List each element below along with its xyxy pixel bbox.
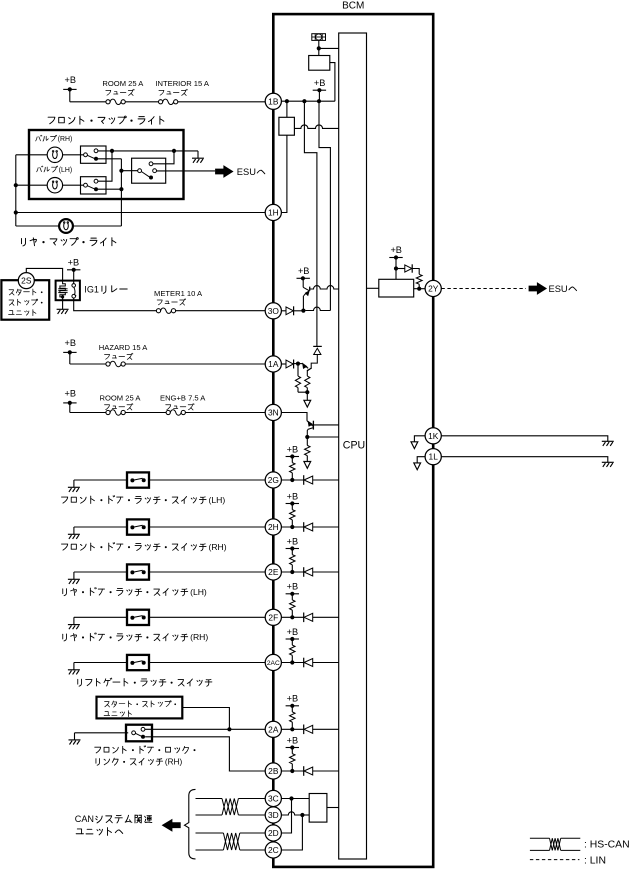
resistor (1A left) xyxy=(295,364,300,393)
label switch row xyxy=(78,679,82,686)
wire ground to switch xyxy=(74,571,127,573)
pull-up resistor xyxy=(290,504,295,528)
latch switch contacts xyxy=(130,616,145,620)
wire diode to CPU xyxy=(313,770,339,772)
node left bus / bulb LH xyxy=(14,183,18,187)
front map light box xyxy=(29,130,184,199)
svg-text:(RH): (RH) xyxy=(190,632,208,642)
ground (switch row) xyxy=(68,572,80,584)
wire fuse to 3O xyxy=(176,310,266,312)
node pull-up xyxy=(290,525,294,529)
wire left bus to bulb RH xyxy=(16,154,47,156)
diode (row, to CPU) xyxy=(304,725,313,735)
fuse HAZARD 15 A xyxy=(106,361,125,366)
wire 1K internal stub xyxy=(414,436,425,442)
svg-text:+B: +B xyxy=(65,75,77,85)
wire diode to resistor (2Y) xyxy=(412,269,419,275)
+B terminal (IG1) xyxy=(67,258,80,284)
wire left bus to bulb LH xyxy=(16,184,47,186)
svg-text:(LH): (LH) xyxy=(59,167,72,174)
diode (3O) xyxy=(286,306,294,315)
ground (IG1 coil) xyxy=(57,297,69,314)
wire branch to switch LH top contact xyxy=(98,151,112,181)
wire 3O to diode xyxy=(281,310,286,312)
label METER1 10 A fuse xyxy=(154,289,203,305)
twisted pair 2D/2C xyxy=(223,833,239,850)
wire main switch common left xyxy=(121,170,137,172)
ground (map light) xyxy=(192,151,204,163)
buzzer/sounder icon xyxy=(312,34,326,41)
svg-text:2Y: 2Y xyxy=(428,284,439,294)
main switch box xyxy=(132,158,166,183)
wire diode to CPU xyxy=(313,479,339,481)
svg-text:2B: 2B xyxy=(268,766,279,776)
ground (switch row) xyxy=(68,663,80,675)
wire IG1 contact to fuse METER1 xyxy=(74,298,157,311)
svg-text:+B: +B xyxy=(287,694,299,704)
svg-text:+B: +B xyxy=(287,444,299,454)
node unit / 2A wire xyxy=(227,727,231,731)
switch LH contacts xyxy=(84,179,98,191)
BCM outer box xyxy=(273,14,433,867)
node +B branch (2Y) xyxy=(394,266,398,270)
diode (row, to CPU) xyxy=(304,766,313,776)
svg-text:CPU: CPU xyxy=(343,440,365,452)
wire collector to CPU xyxy=(313,424,338,426)
wire 1L internal stub xyxy=(417,457,425,463)
connector 3N xyxy=(265,404,281,420)
connector 2E xyxy=(265,564,281,580)
wire switch to connector xyxy=(149,616,265,618)
switch LH box xyxy=(81,177,107,194)
node pull-up xyxy=(290,615,294,619)
IG1 relay contact xyxy=(72,284,76,298)
+B terminal (row) xyxy=(286,444,299,458)
svg-text:(LH): (LH) xyxy=(190,587,207,597)
svg-text:1B: 1B xyxy=(268,96,279,106)
wire 3D right xyxy=(238,814,265,816)
svg-text:HAZARD 15 A: HAZARD 15 A xyxy=(99,343,148,352)
wire 1B bus xyxy=(281,100,335,102)
svg-text:+B: +B xyxy=(390,245,402,255)
connector 2C xyxy=(265,842,281,858)
connector 2Y xyxy=(425,280,441,296)
wire connector to diode xyxy=(281,662,303,664)
pull-up resistor xyxy=(290,549,295,573)
wire 1A to diode xyxy=(281,363,286,365)
wire 2D right xyxy=(240,832,266,834)
wire fuse to 1A xyxy=(125,363,265,365)
svg-text:1L: 1L xyxy=(429,452,439,462)
+B terminal (1B feed) xyxy=(63,75,76,102)
node 3D/2C xyxy=(300,813,304,817)
wire 2C left xyxy=(196,849,224,851)
label lock link switch line2 xyxy=(96,759,100,766)
CAN transceiver box xyxy=(309,794,327,823)
latch switch box xyxy=(127,519,149,534)
+B terminal (3O transistor) xyxy=(297,266,310,281)
CPU box xyxy=(339,33,367,859)
node pull-up xyxy=(290,769,294,773)
label start stop unit (2A) xyxy=(104,701,176,717)
connector 3D xyxy=(265,807,281,823)
latch switch box xyxy=(127,564,149,579)
start stop unit box (left) xyxy=(1,280,49,320)
svg-text:IG1: IG1 xyxy=(84,285,99,295)
connector 3O xyxy=(265,303,281,319)
rear map light bulb xyxy=(59,219,73,233)
node common bus / switch LH xyxy=(119,187,123,191)
transistor (1A) xyxy=(298,355,317,377)
bulb LH xyxy=(47,178,62,193)
legend HS-CAN symbol xyxy=(530,838,580,850)
label bulb RH xyxy=(36,135,42,141)
label ROOM 25 A fuse xyxy=(102,79,144,95)
diode (row, to CPU) xyxy=(304,522,313,532)
svg-text:3O: 3O xyxy=(268,306,280,316)
lock link switch contacts xyxy=(132,727,145,738)
label switch row xyxy=(61,497,67,503)
svg-text:ROOM 25 A: ROOM 25 A xyxy=(100,393,142,402)
+B terminal (row) xyxy=(286,491,299,505)
ground (1L) xyxy=(602,462,614,467)
latch switch contacts xyxy=(130,478,145,482)
arrow to CAN units xyxy=(162,819,180,831)
wire 1K to ground xyxy=(441,436,608,442)
wire 3D left xyxy=(196,814,223,816)
latch switch contacts xyxy=(130,525,145,529)
arrow to ESU (map light) xyxy=(216,166,233,177)
ground (switch row) xyxy=(68,527,80,539)
svg-text:+B: +B xyxy=(298,266,310,276)
wire fuse to 3N xyxy=(185,412,265,414)
wire diode to node 1A xyxy=(294,363,298,365)
transistor (3O, PNP) xyxy=(303,278,310,296)
wire transistor to CPU (humps) xyxy=(310,286,339,289)
ground (lock switch) xyxy=(69,733,81,745)
diode (row, to CPU) xyxy=(304,658,313,668)
pull-up resistor xyxy=(290,594,295,618)
arrow to ESU (2Y) xyxy=(529,283,546,294)
switch RH contacts xyxy=(84,149,98,161)
latch switch contacts xyxy=(130,570,145,574)
svg-text:2S: 2S xyxy=(21,276,32,286)
+B terminal (2Y) xyxy=(389,245,402,279)
wire relay to 2Y xyxy=(414,288,426,290)
wire +B to fuse ROOM xyxy=(70,101,106,103)
label switch row xyxy=(61,544,67,550)
wire node up to transistor xyxy=(302,296,304,311)
connector 1H xyxy=(265,204,281,220)
IG1 relay box xyxy=(56,281,80,301)
main switch contacts xyxy=(138,162,157,180)
wire between fuses xyxy=(125,101,158,103)
wire left bus to rear bulb xyxy=(16,225,59,227)
svg-text:+B: +B xyxy=(65,389,77,399)
svg-text:(RH): (RH) xyxy=(58,136,73,143)
diode to bus A (1A) xyxy=(313,346,322,354)
svg-text:BCM: BCM xyxy=(342,1,364,12)
pull-up resistor xyxy=(290,748,295,772)
wire CPU to ESU relay xyxy=(367,287,379,289)
label bulb LH xyxy=(37,166,43,172)
wire 2D up to 3C node xyxy=(281,799,291,834)
fuse ROOM 25 A (3N) xyxy=(106,410,125,415)
svg-text:ESU: ESU xyxy=(549,284,568,294)
twisted pair 3C/3D xyxy=(222,799,238,816)
wire connector to diode xyxy=(281,616,303,618)
svg-text:+B: +B xyxy=(287,735,299,745)
svg-text:: HS-CAN: : HS-CAN xyxy=(584,839,630,850)
connector 2D xyxy=(265,825,281,841)
node pull-up xyxy=(290,570,294,574)
open arrow (1K internal) xyxy=(411,442,418,449)
ground (1K) xyxy=(602,441,614,446)
svg-text:2D: 2D xyxy=(268,828,279,838)
bus A: 1B to 1A diode xyxy=(304,101,317,346)
connector 1L xyxy=(425,449,441,465)
wire ground to switch xyxy=(74,479,127,481)
wire switch to connector xyxy=(149,662,265,664)
wire connector to diode xyxy=(281,526,303,528)
svg-text:3D: 3D xyxy=(268,810,279,820)
label switch row xyxy=(63,589,67,596)
+B terminal (row) xyxy=(286,627,299,641)
switch RH box xyxy=(81,146,107,163)
label rear map light xyxy=(22,238,26,246)
wire 1L to ground xyxy=(441,457,608,463)
svg-text:3N: 3N xyxy=(268,408,279,418)
wire 3C left xyxy=(196,798,223,800)
node common bus / main switch xyxy=(119,169,123,173)
svg-text:3C: 3C xyxy=(268,794,279,804)
wire resistor to node (2Y) xyxy=(418,284,420,289)
resistor (3N) xyxy=(305,437,310,462)
wire 1B bus up to relay coil xyxy=(330,63,335,102)
diode (2Y) xyxy=(405,264,412,272)
svg-text:ENG+B 7.5 A: ENG+B 7.5 A xyxy=(160,393,206,402)
connector 2A xyxy=(265,721,281,737)
+B terminal (BCM internal top) xyxy=(313,78,326,101)
wire switch RH top to ground net xyxy=(98,150,198,152)
connector 1A xyxy=(265,356,281,372)
wire ground to switch xyxy=(74,616,127,618)
diode (row, to CPU) xyxy=(304,567,313,577)
IG1 relay coil xyxy=(58,282,67,299)
lock link switch box xyxy=(126,725,152,742)
svg-text:+B: +B xyxy=(287,582,299,592)
wire ground to switch xyxy=(74,662,127,664)
open arrow (1L internal) xyxy=(414,463,421,470)
svg-text:2C: 2C xyxy=(268,845,279,855)
wire 1B node to relay contact xyxy=(286,101,288,117)
bulb RH xyxy=(47,147,62,162)
svg-text:1H: 1H xyxy=(268,208,279,218)
wire switch RH bottom to common bus xyxy=(96,158,121,160)
wire diode to CPU xyxy=(313,662,339,664)
wire switch LH bottom to common bus xyxy=(98,188,121,190)
wire connector to diode xyxy=(281,728,303,730)
+B terminal (row) xyxy=(286,694,299,708)
svg-text:(RH): (RH) xyxy=(208,542,226,552)
wire unit to 2A xyxy=(182,708,229,730)
svg-text:+B: +B xyxy=(287,536,299,546)
wire 2D left xyxy=(196,832,224,834)
label front map light xyxy=(48,117,55,124)
wire resistors join xyxy=(298,388,307,401)
ESU relay box xyxy=(379,279,414,297)
node pull-up xyxy=(290,727,294,731)
resistor (1A right) xyxy=(305,376,310,388)
wire +B to fuse ROOM (3N) xyxy=(70,412,106,414)
svg-text:: LIN: : LIN xyxy=(584,856,606,867)
connector 2G xyxy=(265,472,281,488)
wire node to diode (2Y) xyxy=(396,268,405,270)
wire buzzer to node xyxy=(318,40,320,55)
svg-text:ESU: ESU xyxy=(237,167,256,177)
latch switch box xyxy=(127,655,149,670)
wire between fuses (3N) xyxy=(125,412,166,414)
fuse METER1 10 A xyxy=(156,308,175,313)
wire 3C right xyxy=(238,798,265,800)
node on 1B bus (+B / bus B) xyxy=(317,99,321,103)
wire switch to connector xyxy=(149,526,265,528)
wire 3D into box xyxy=(302,814,309,816)
+B terminal (3N) xyxy=(63,389,76,413)
svg-text:2F: 2F xyxy=(268,612,278,622)
start stop unit box (2A) xyxy=(97,697,183,719)
node 3O xyxy=(301,309,305,313)
label ROOM 25 A fuse (3N) xyxy=(100,393,142,410)
wire relay contact to 1H xyxy=(281,135,287,212)
svg-text:CAN: CAN xyxy=(75,814,94,824)
wire switch to connector xyxy=(149,571,265,573)
connector 1K xyxy=(425,428,441,444)
wire +B to fuse HAZARD xyxy=(70,363,106,365)
node buzzer/coil/CPU xyxy=(317,46,321,50)
resistor (2Y) xyxy=(416,274,422,284)
label ENG+B 7.5 A fuse xyxy=(160,393,206,410)
wire connector to diode xyxy=(281,571,303,573)
fuse ROOM 25 A xyxy=(106,99,125,104)
connector 2S xyxy=(18,273,34,289)
label INTERIOR 15 A fuse xyxy=(155,79,210,95)
node ground net / main switch branch xyxy=(172,149,176,153)
svg-text:+B: +B xyxy=(287,627,299,637)
wire branch to main switch top contact xyxy=(153,151,174,164)
svg-text:2A: 2A xyxy=(268,724,279,734)
dashed LIN wire to ESU xyxy=(441,288,526,290)
diode (row, to CPU) xyxy=(304,613,313,623)
relay coil K1 xyxy=(309,56,330,71)
connector 2H xyxy=(265,519,281,535)
common bus vertical xyxy=(120,159,122,226)
wire main switch to ESU xyxy=(157,170,216,172)
wire relay contact to CPU (humps) xyxy=(294,125,338,128)
wire CAN box to CPU xyxy=(327,807,339,809)
svg-text:+B: +B xyxy=(68,258,80,268)
wire 3N to transistor xyxy=(281,413,307,421)
+B terminal (row) xyxy=(286,735,299,749)
wire diode to CPU xyxy=(313,571,339,573)
label CAN system line2 xyxy=(76,829,83,834)
wire bulb LH to switch LH xyxy=(63,184,84,186)
svg-text:2E: 2E xyxy=(268,567,279,577)
relay contact box K1 xyxy=(279,117,295,135)
svg-text:1A: 1A xyxy=(268,359,279,369)
wire bulb RH to switch RH xyxy=(63,154,84,156)
node emitter (3N) xyxy=(305,435,309,439)
latch switch contacts xyxy=(130,661,145,665)
wire diode to node xyxy=(294,310,304,312)
wire lock switch to 2A xyxy=(145,728,265,730)
svg-text:2G: 2G xyxy=(268,475,279,485)
node resistor / 2Y wire xyxy=(417,287,421,291)
node ground net / LH branch xyxy=(110,149,114,153)
wire diode to CPU xyxy=(313,526,339,528)
CAN brace xyxy=(185,789,196,859)
wire 3D to CAN box (hump) xyxy=(281,812,302,815)
svg-text:1K: 1K xyxy=(428,431,439,441)
svg-text:INTERIOR 15 A: INTERIOR 15 A xyxy=(155,79,210,88)
wire fuse to 1B xyxy=(178,101,265,103)
svg-text:2H: 2H xyxy=(268,522,279,532)
label switch row xyxy=(63,634,67,641)
wire rear bulb to common bus xyxy=(73,225,122,227)
pull-up resistor xyxy=(290,457,295,481)
node pull-up xyxy=(290,660,294,664)
svg-text:(LH): (LH) xyxy=(208,495,225,505)
wire 2C right xyxy=(240,849,266,851)
label lock link switch line1 xyxy=(95,747,101,753)
svg-text:+B: +B xyxy=(65,338,77,348)
connector 3C xyxy=(265,790,281,806)
pull-up resistor xyxy=(290,706,295,730)
output arrow (1A) xyxy=(304,400,311,407)
output arrow (3N) xyxy=(304,462,311,469)
node left bus / 1H wire xyxy=(14,210,18,214)
ground (switch row) xyxy=(68,617,80,629)
wire node to CPU xyxy=(319,47,339,49)
connector 2B xyxy=(265,763,281,779)
latch switch box xyxy=(127,610,149,625)
label HAZARD 15 A fuse xyxy=(99,343,148,360)
node 1A xyxy=(296,362,300,366)
+B terminal (row) xyxy=(286,582,299,596)
legend LIN symbol xyxy=(530,859,580,861)
pull-up resistor xyxy=(290,639,295,663)
wire emitter to CPU xyxy=(307,436,338,438)
fuse INTERIOR 15 A xyxy=(159,99,178,104)
latch switch box xyxy=(127,472,149,487)
transistor (3N) xyxy=(307,421,313,437)
node on 1B bus (relay contact) xyxy=(285,99,289,103)
connector 1B xyxy=(265,93,281,109)
svg-text:(RH): (RH) xyxy=(165,757,183,766)
diode (1A) xyxy=(286,360,294,369)
connector 2F xyxy=(265,609,281,625)
wire 2S to IG1 coil xyxy=(26,268,62,281)
+B terminal (row) xyxy=(286,536,299,550)
wire node to bus B (hump) xyxy=(306,307,331,310)
+B terminal (1A) xyxy=(63,338,76,364)
svg-text:ROOM 25 A: ROOM 25 A xyxy=(102,79,144,88)
wire diode to CPU xyxy=(313,616,339,618)
svg-text:2AC: 2AC xyxy=(267,660,280,667)
wire diode to CPU xyxy=(313,728,339,730)
node on 1B bus (bus A) xyxy=(302,99,306,103)
wire ground to switch xyxy=(74,526,127,528)
